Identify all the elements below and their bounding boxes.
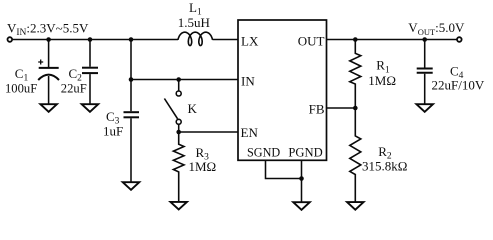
ground (C1): [40, 104, 57, 112]
svg-text:1.5uH: 1.5uH: [178, 15, 210, 30]
inductor L1: [178, 32, 213, 45]
wire SGND pin: [266, 160, 302, 178]
svg-text:IN: IN: [241, 73, 255, 88]
wire FB: [327, 107, 356, 109]
resistor R2: [350, 108, 361, 204]
junction SGND/PGND: [299, 176, 304, 181]
wire inductor to IC LX: [213, 39, 239, 41]
svg-text:315.8kΩ: 315.8kΩ: [362, 159, 407, 174]
svg-text:1MΩ: 1MΩ: [368, 73, 396, 88]
svg-text:22uF/10V: 22uF/10V: [432, 78, 485, 93]
svg-text:SGND: SGND: [247, 145, 280, 159]
wire input rail: [12, 39, 178, 41]
capacitor C1: [38, 40, 59, 107]
junction C3 branch: [129, 37, 134, 42]
resistor R1: [350, 40, 361, 109]
wire branch to C3 and IN: [130, 40, 132, 112]
wire EN: [179, 131, 238, 133]
wire PGND pin: [301, 160, 303, 204]
ground (R3): [170, 202, 187, 210]
svg-text:1MΩ: 1MΩ: [189, 159, 217, 174]
junction switch top: [176, 77, 181, 82]
ground (R2): [347, 202, 364, 210]
input terminal: [8, 37, 13, 42]
svg-text:22uF: 22uF: [61, 81, 87, 95]
capacitor C3: [124, 112, 140, 184]
resistor R3: [173, 132, 184, 204]
capacitor C2: [82, 40, 98, 107]
svg-text:EN: EN: [241, 125, 259, 140]
svg-text:K: K: [188, 101, 198, 116]
junction EN: [176, 130, 181, 135]
wire IN: [131, 79, 238, 81]
ground (C3): [123, 182, 140, 190]
junction C2: [88, 37, 93, 42]
svg-text:OUT: OUT: [298, 34, 325, 49]
IC U1 box: [238, 20, 327, 160]
junction C1: [46, 37, 51, 42]
ground (PGND): [293, 202, 310, 210]
output terminal: [457, 37, 462, 42]
svg-text:VOUT:5.0V: VOUT:5.0V: [408, 20, 465, 37]
svg-text:PGND: PGND: [288, 145, 322, 159]
junction FB: [353, 106, 358, 111]
ground (C4): [416, 104, 433, 112]
junction IN corner: [129, 77, 134, 82]
switch K: [164, 80, 181, 133]
junction C4 top: [422, 37, 427, 42]
svg-text:FB: FB: [309, 102, 325, 117]
svg-text:100uF: 100uF: [5, 81, 37, 95]
wire OUT rail: [327, 39, 458, 41]
ground (C2): [82, 104, 99, 112]
svg-text:LX: LX: [241, 34, 259, 49]
svg-text:1uF: 1uF: [103, 124, 123, 139]
junction R1 top: [353, 37, 358, 42]
capacitor C4: [417, 40, 433, 107]
